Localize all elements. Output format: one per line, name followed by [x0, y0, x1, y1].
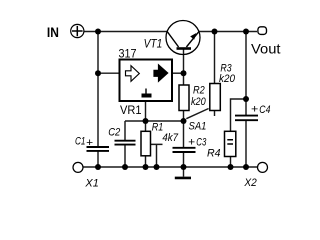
node: C4 / R4 branch junction [243, 96, 249, 102]
node: R2 / SA1 / C3 junction [181, 118, 187, 124]
node: VR1 output / VT1 base junction [181, 70, 187, 76]
svg-text:317: 317 [119, 48, 137, 60]
svg-text:C4: C4 [259, 104, 270, 116]
svg-text:4k7: 4k7 [162, 132, 178, 144]
node: ground rail / C1 junction [95, 164, 101, 170]
wire bottom rail [83, 166, 257, 168]
resistor R3 [210, 84, 221, 111]
capacitor C3 [173, 148, 196, 152]
wire C2 drop [124, 121, 126, 167]
svg-text:X2: X2 [243, 177, 256, 189]
wire C4 drop [245, 32, 247, 168]
switch SA1 blade [186, 109, 208, 119]
svg-text:R2: R2 [193, 84, 205, 96]
node: ground rail / R4 junction [228, 164, 234, 170]
node: output rail / C4 junction [243, 29, 249, 35]
node: ground rail / R1 junction [143, 164, 149, 170]
VR1 input arrow (open) [126, 66, 140, 82]
svg-text:k20: k20 [219, 73, 236, 85]
wire top rail right (VT1 emitter to Vout) [199, 31, 257, 33]
wire R2 top lead [183, 73, 185, 85]
capacitor C2 [115, 141, 136, 145]
svg-text:X1: X1 [84, 178, 98, 190]
svg-text:VR1: VR1 [120, 103, 142, 117]
node: ground rail / R1 tap junction [154, 164, 160, 170]
svg-text:+: + [86, 137, 93, 149]
VR1 adjust marker [145, 89, 147, 94]
node: ground rail / C4 junction [243, 164, 249, 170]
svg-text:C1: C1 [75, 136, 86, 148]
resistor R4 [225, 131, 236, 156]
regulator VR1 box [120, 60, 173, 102]
capacitor C4 [235, 116, 258, 121]
svg-text:IN: IN [47, 24, 59, 40]
wire R4 bottom lead [230, 157, 232, 168]
svg-text:k20: k20 [191, 96, 206, 108]
wire R4 branch [231, 99, 247, 131]
wire VR1 adj pin down through R1 top [145, 102, 147, 132]
wire R3 bottom lead (switch contact) [214, 111, 216, 117]
wire top rail left (IN to VT1 collector) [84, 31, 167, 33]
wire R3 top lead [214, 32, 216, 84]
transistor VT1 [166, 21, 200, 55]
ground [175, 167, 191, 178]
terminal X2 [258, 162, 268, 172]
svg-text:Vout: Vout [251, 40, 281, 56]
wire adjust rail y=120 [125, 120, 184, 122]
VR1 output arrow (filled) [154, 65, 168, 82]
node: ground rail / C2 junction [122, 164, 128, 170]
wire VT1 base down to output node [183, 49, 185, 73]
wire R1 bottom lead [145, 156, 147, 167]
svg-text:SA1: SA1 [189, 121, 207, 133]
resistor R1 [141, 131, 151, 156]
node: output rail / R3 junction [212, 29, 218, 35]
wire VR1 input [98, 72, 120, 74]
wire input drop x=98 (through C1) [97, 32, 99, 168]
terminal X1 [73, 162, 83, 172]
node: ground rail / C3 / ground junction [181, 164, 187, 170]
wire R1 tap [151, 144, 163, 167]
svg-text:C2: C2 [108, 126, 121, 138]
svg-text:VT1: VT1 [144, 37, 163, 51]
svg-text:C3: C3 [196, 136, 206, 148]
terminal Vout (rounded square) [258, 27, 267, 35]
node: VR1 input junction [95, 70, 101, 76]
svg-text:+: + [188, 136, 195, 148]
capacitor C1 [87, 147, 110, 151]
wire VR1 output to node [172, 72, 184, 74]
node: input rail / C1 junction [95, 29, 101, 35]
svg-text:R4: R4 [207, 147, 221, 159]
node: VR1 adjust / R1 junction [143, 118, 149, 124]
resistor R2 [179, 85, 189, 111]
svg-text:+: + [251, 104, 259, 116]
wire C3 drop [183, 121, 185, 167]
terminal IN (circle with plus) [71, 24, 84, 37]
wire R2 bottom lead to adj node [183, 111, 185, 122]
